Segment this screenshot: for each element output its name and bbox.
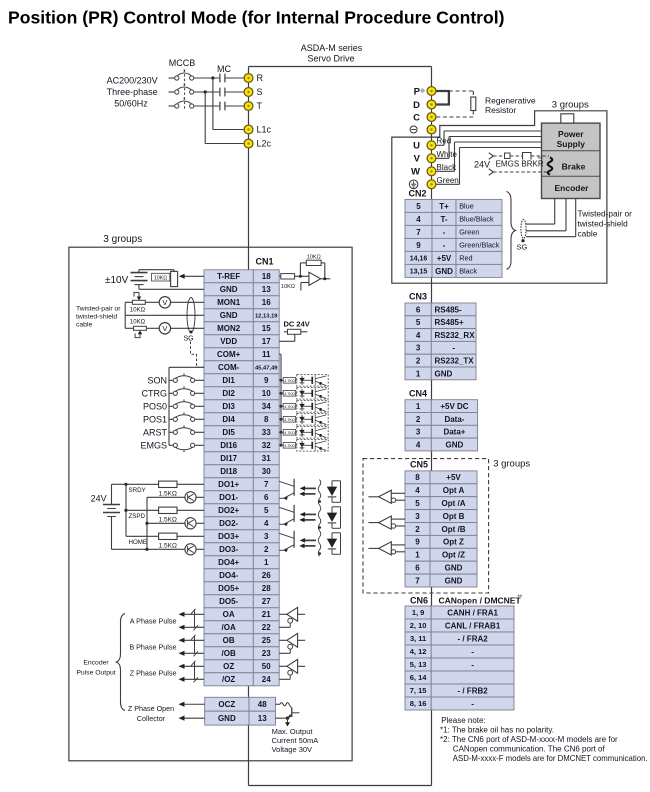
svg-text:27: 27 [262, 597, 271, 606]
svg-text:V: V [162, 324, 167, 333]
svg-text:18: 18 [262, 272, 271, 281]
svg-text:twisted-shield: twisted-shield [76, 313, 117, 320]
svg-text:-: - [471, 647, 474, 656]
svg-text:7: 7 [264, 480, 269, 489]
svg-text:Green: Green [459, 228, 479, 237]
svg-text:HOME: HOME [129, 539, 148, 546]
svg-text:CN4: CN4 [409, 389, 427, 399]
svg-text:1, 9: 1, 9 [412, 608, 425, 617]
svg-text:SG: SG [184, 336, 194, 343]
svg-text:/OA: /OA [222, 623, 236, 632]
svg-text:CN3: CN3 [409, 292, 427, 302]
svg-text:T: T [257, 101, 263, 111]
svg-text:6: 6 [416, 305, 421, 314]
svg-text:GND: GND [446, 440, 464, 449]
svg-text:3: 3 [415, 512, 420, 521]
svg-text:Red: Red [437, 137, 452, 146]
svg-text:Green/Black: Green/Black [459, 241, 500, 250]
svg-text:9: 9 [264, 376, 269, 385]
svg-text:6: 6 [264, 493, 269, 502]
svg-text:DI16: DI16 [220, 441, 237, 450]
svg-text:Encoder: Encoder [83, 660, 109, 667]
svg-text:OB: OB [223, 636, 235, 645]
svg-text:1.5KΩ: 1.5KΩ [159, 490, 177, 497]
svg-text:Resistor: Resistor [485, 105, 516, 115]
svg-text:Supply: Supply [557, 139, 586, 149]
svg-text:23: 23 [262, 649, 271, 658]
svg-text:GND: GND [435, 369, 453, 378]
svg-text:10KΩ: 10KΩ [307, 254, 321, 260]
svg-text:25: 25 [262, 636, 271, 645]
svg-text:W: W [411, 167, 420, 178]
svg-text:3 groups: 3 groups [552, 100, 589, 111]
svg-text:7, 15: 7, 15 [410, 686, 427, 695]
svg-text:Twisted-pair or: Twisted-pair or [76, 305, 121, 312]
svg-text:DI2: DI2 [222, 389, 235, 398]
svg-text:DO2+: DO2+ [218, 506, 239, 515]
svg-text:Power: Power [558, 129, 584, 139]
svg-text:Twisted-pair or: Twisted-pair or [578, 209, 633, 219]
svg-text:CANopen / DMCNET: CANopen / DMCNET [439, 596, 522, 606]
svg-text:RS232_RX: RS232_RX [435, 331, 476, 340]
svg-text:+5V DC: +5V DC [440, 402, 468, 411]
svg-text:Black: Black [459, 267, 477, 276]
svg-text:- / FRB2: - / FRB2 [457, 686, 488, 695]
svg-text:26: 26 [262, 571, 271, 580]
svg-text:Opt B: Opt B [443, 512, 465, 521]
svg-text:3, 11: 3, 11 [410, 634, 426, 643]
svg-text:33: 33 [262, 428, 271, 437]
svg-text:RS485-: RS485- [435, 305, 462, 314]
svg-text:4.7KΩ: 4.7KΩ [284, 405, 295, 409]
svg-text:Opt /A: Opt /A [442, 499, 466, 508]
svg-text:11: 11 [262, 350, 271, 359]
svg-text:10KΩ: 10KΩ [130, 307, 146, 313]
svg-text:OZ: OZ [223, 662, 234, 671]
svg-text:T-REF: T-REF [217, 272, 240, 281]
svg-text:POS1: POS1 [143, 415, 167, 425]
svg-text:1: 1 [416, 369, 421, 378]
svg-text:CN1: CN1 [256, 257, 274, 267]
svg-text:DO2-: DO2- [219, 519, 238, 528]
svg-text:EMGS: EMGS [140, 441, 167, 451]
svg-text:Please note:: Please note: [441, 716, 485, 725]
svg-text:2: 2 [264, 545, 269, 554]
svg-text:1: 1 [416, 402, 421, 411]
svg-text:RS232_TX: RS232_TX [435, 356, 475, 365]
svg-text:Blue/Black: Blue/Black [459, 215, 494, 224]
svg-text:MON1: MON1 [217, 298, 241, 307]
svg-text:34: 34 [262, 402, 271, 411]
svg-text:4: 4 [416, 215, 421, 224]
svg-text:DO3-: DO3- [219, 545, 238, 554]
svg-text:ARST: ARST [143, 428, 168, 438]
svg-text:7: 7 [416, 228, 421, 237]
svg-text:3: 3 [416, 428, 421, 437]
svg-text:C: C [413, 112, 420, 123]
svg-text:4.7KΩ: 4.7KΩ [284, 444, 295, 448]
svg-text:GND: GND [218, 714, 236, 723]
svg-text:22: 22 [262, 623, 271, 632]
svg-text:DO5-: DO5- [219, 597, 238, 606]
svg-text:CN6: CN6 [410, 596, 428, 606]
svg-text:SG: SG [517, 243, 528, 252]
svg-text:*1: The brake oil has no polar: *1: The brake oil has no polarity. [440, 726, 554, 735]
svg-text:EMGS BRKR: EMGS BRKR [496, 160, 544, 169]
svg-text:+5V: +5V [437, 254, 452, 263]
svg-text:21: 21 [262, 610, 271, 619]
svg-text:5: 5 [415, 499, 420, 508]
svg-text:-: - [452, 344, 455, 353]
svg-text:13: 13 [262, 285, 271, 294]
svg-text:L2c: L2c [257, 139, 272, 149]
svg-text:Opt Z: Opt Z [443, 538, 464, 547]
svg-text:4: 4 [415, 486, 420, 495]
svg-text:MC: MC [217, 64, 231, 74]
svg-text:ASD-M-xxxx-F models are for DM: ASD-M-xxxx-F models are for DMCNET commu… [453, 754, 648, 763]
svg-text:4, 12: 4, 12 [410, 647, 427, 656]
svg-text:8: 8 [415, 473, 420, 482]
svg-text:DO4+: DO4+ [218, 558, 239, 567]
svg-text:DO1-: DO1- [219, 493, 238, 502]
svg-text:14,16: 14,16 [410, 255, 428, 262]
svg-text:1: 1 [264, 558, 269, 567]
svg-text:RS485+: RS485+ [435, 318, 464, 327]
svg-text:Current 50mA: Current 50mA [272, 736, 319, 745]
svg-text:twisted-shield: twisted-shield [578, 219, 629, 229]
svg-text:OCZ: OCZ [218, 700, 235, 709]
svg-text:30: 30 [262, 467, 271, 476]
svg-text:DO4-: DO4- [219, 571, 238, 580]
svg-text:48: 48 [258, 700, 267, 709]
svg-text:Black: Black [437, 163, 458, 172]
svg-text:T+: T+ [439, 202, 449, 211]
svg-text:4: 4 [264, 519, 269, 528]
svg-text:50/60Hz: 50/60Hz [114, 99, 148, 109]
svg-text:-: - [471, 660, 474, 669]
svg-text:2, 10: 2, 10 [410, 621, 427, 630]
svg-text:Green: Green [437, 176, 459, 185]
svg-text:17: 17 [262, 337, 271, 346]
svg-text:Servo Drive: Servo Drive [307, 54, 354, 64]
svg-text:DO5+: DO5+ [218, 584, 239, 593]
svg-text:**: ** [538, 157, 543, 163]
svg-text:13: 13 [258, 714, 267, 723]
svg-text:1.5KΩ: 1.5KΩ [159, 542, 177, 549]
svg-text:GND: GND [220, 311, 238, 320]
svg-text:T-: T- [440, 215, 447, 224]
svg-text:3: 3 [416, 344, 421, 353]
svg-text:6, 14: 6, 14 [410, 673, 428, 682]
svg-text:4: 4 [416, 440, 421, 449]
svg-text:4.7KΩ: 4.7KΩ [284, 431, 295, 435]
svg-text:DO3+: DO3+ [218, 532, 239, 541]
svg-text:Red: Red [459, 254, 472, 263]
svg-text:Opt A: Opt A [443, 486, 465, 495]
svg-text:2: 2 [415, 525, 420, 534]
svg-text:Opt /B: Opt /B [442, 525, 466, 534]
svg-text:cable: cable [76, 321, 92, 328]
svg-text:VDD: VDD [220, 337, 237, 346]
svg-text:-: - [471, 699, 474, 708]
svg-text:24V: 24V [474, 160, 490, 170]
svg-text:DC 24V: DC 24V [284, 320, 310, 329]
svg-text:cable: cable [578, 229, 598, 239]
svg-text:1.5KΩ: 1.5KΩ [159, 516, 177, 523]
svg-text:Three-phase: Three-phase [107, 87, 158, 97]
svg-text:Data-: Data- [444, 415, 464, 424]
svg-text:3 groups: 3 groups [493, 459, 530, 470]
svg-text:S: S [257, 87, 263, 97]
svg-text:CANL / FRAB1: CANL / FRAB1 [445, 621, 501, 630]
svg-text:3: 3 [264, 532, 269, 541]
svg-text:Z Phase Open: Z Phase Open [128, 704, 174, 713]
svg-text:P: P [414, 86, 421, 97]
svg-text:POS0: POS0 [143, 402, 167, 412]
svg-text:MON2: MON2 [217, 324, 241, 333]
svg-text:DI3: DI3 [222, 402, 235, 411]
svg-text:Pulse Output: Pulse Output [76, 670, 115, 677]
svg-text:4.7KΩ: 4.7KΩ [284, 379, 295, 383]
svg-text:10: 10 [262, 389, 271, 398]
svg-text:5, 13: 5, 13 [410, 660, 427, 669]
svg-text:4.7KΩ: 4.7KΩ [284, 392, 295, 396]
svg-text:B Phase Pulse: B Phase Pulse [129, 643, 176, 652]
svg-text:15: 15 [262, 324, 271, 333]
svg-text:16: 16 [262, 298, 271, 307]
svg-text:10KΩ: 10KΩ [281, 284, 295, 290]
svg-text:24V: 24V [91, 494, 107, 504]
svg-text:CANopen communication. The CN6: CANopen communication. The CN6 port of [453, 745, 606, 754]
svg-text:*2: The CN6 port of ASD-M-xxxx: *2: The CN6 port of ASD-M-xxxx-M models … [440, 735, 618, 744]
svg-text:V: V [162, 298, 167, 307]
svg-text:Blue: Blue [459, 202, 474, 211]
svg-text:10KΩ: 10KΩ [154, 275, 167, 281]
svg-text:GND: GND [435, 267, 453, 276]
svg-text:/OB: /OB [222, 649, 236, 658]
svg-text:SRDY: SRDY [129, 487, 146, 494]
svg-text:R: R [257, 73, 264, 83]
svg-text:Regenerative: Regenerative [485, 96, 536, 106]
svg-text:CTRG: CTRG [142, 389, 168, 399]
svg-text:V: V [414, 154, 421, 165]
svg-text:DI18: DI18 [220, 467, 237, 476]
svg-text:Position (PR) Control Mode (fo: Position (PR) Control Mode (for Internal… [8, 8, 505, 28]
svg-text:DI5: DI5 [222, 428, 235, 437]
svg-text:AC200/230V: AC200/230V [107, 76, 158, 86]
svg-text:12,13,19: 12,13,19 [255, 313, 278, 319]
svg-text:U: U [413, 141, 420, 152]
svg-text:31: 31 [262, 454, 271, 463]
svg-text:2: 2 [416, 356, 421, 365]
svg-text:50: 50 [262, 662, 271, 671]
svg-text:Opt /Z: Opt /Z [442, 551, 465, 560]
svg-text:MCCB: MCCB [169, 58, 196, 68]
svg-text:-: - [443, 228, 446, 237]
svg-text:1: 1 [415, 551, 420, 560]
svg-text:**: ** [518, 595, 523, 601]
svg-text:DO1+: DO1+ [218, 480, 239, 489]
svg-text:9: 9 [416, 241, 421, 250]
svg-text:32: 32 [262, 441, 271, 450]
svg-text:5: 5 [416, 318, 421, 327]
svg-text:10KΩ: 10KΩ [130, 319, 146, 325]
svg-text:L1c: L1c [257, 125, 272, 135]
svg-text:White: White [437, 150, 458, 159]
svg-text:5: 5 [416, 202, 421, 211]
svg-text:GND: GND [220, 285, 238, 294]
svg-text:±10V: ±10V [105, 275, 129, 286]
svg-text:- / FRA2: - / FRA2 [457, 634, 488, 643]
svg-text:7: 7 [415, 576, 420, 585]
svg-text:GND: GND [445, 576, 463, 585]
svg-text:ZSPD: ZSPD [129, 513, 146, 520]
svg-text:CN2: CN2 [409, 189, 427, 199]
svg-text:COM-: COM- [218, 363, 240, 372]
svg-text:A Phase Pulse: A Phase Pulse [130, 617, 177, 626]
svg-text:COM+: COM+ [217, 350, 241, 359]
svg-text:DI1: DI1 [222, 376, 235, 385]
svg-text:45,47,49: 45,47,49 [255, 365, 278, 371]
svg-text:-: - [443, 241, 446, 250]
svg-text:Brake: Brake [562, 162, 586, 172]
svg-text:CN5: CN5 [410, 460, 428, 470]
svg-text:ASDA-M series: ASDA-M series [301, 43, 363, 53]
svg-text:8: 8 [264, 415, 269, 424]
svg-text:4: 4 [416, 331, 421, 340]
svg-text:2: 2 [416, 415, 421, 424]
svg-text:/OZ: /OZ [222, 675, 235, 684]
svg-text:13,15: 13,15 [410, 268, 428, 275]
svg-text:OA: OA [223, 610, 235, 619]
svg-text:SON: SON [147, 376, 167, 386]
svg-text:GND: GND [445, 564, 463, 573]
svg-text:Data+: Data+ [443, 428, 465, 437]
svg-text:Encoder: Encoder [554, 183, 589, 193]
svg-text:3 groups: 3 groups [103, 234, 142, 245]
svg-text:Collector: Collector [137, 714, 166, 723]
svg-text:4.7KΩ: 4.7KΩ [284, 418, 295, 422]
svg-text:CANH / FRA1: CANH / FRA1 [447, 608, 498, 617]
svg-text:DI4: DI4 [222, 415, 235, 424]
svg-text:24: 24 [262, 675, 271, 684]
svg-text:DI17: DI17 [220, 454, 237, 463]
svg-text:Max. Output: Max. Output [272, 727, 314, 736]
svg-text:Voltage 30V: Voltage 30V [272, 745, 312, 754]
svg-text:5: 5 [264, 506, 269, 515]
svg-text:6: 6 [415, 564, 420, 573]
svg-text:Z Phase Pulse: Z Phase Pulse [130, 669, 177, 678]
svg-text:28: 28 [262, 584, 271, 593]
svg-text:9: 9 [415, 538, 420, 547]
svg-text:+5V: +5V [446, 473, 461, 482]
svg-text:8, 16: 8, 16 [410, 699, 427, 708]
svg-text:D: D [413, 100, 420, 111]
